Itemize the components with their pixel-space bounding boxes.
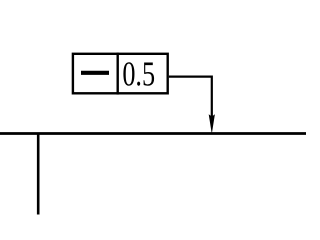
feature control frame box: [73, 54, 168, 94]
surface line (part outline, horizontal): [0, 132, 306, 135]
straightness symbol: [81, 71, 109, 75]
wire (part outline, left vertical edge): [37, 133, 40, 215]
leader line: [169, 77, 212, 116]
svg-text:0.5: 0.5: [122, 55, 155, 93]
feature control frame divider: [116, 53, 118, 95]
leader arrowhead: [209, 114, 215, 134]
